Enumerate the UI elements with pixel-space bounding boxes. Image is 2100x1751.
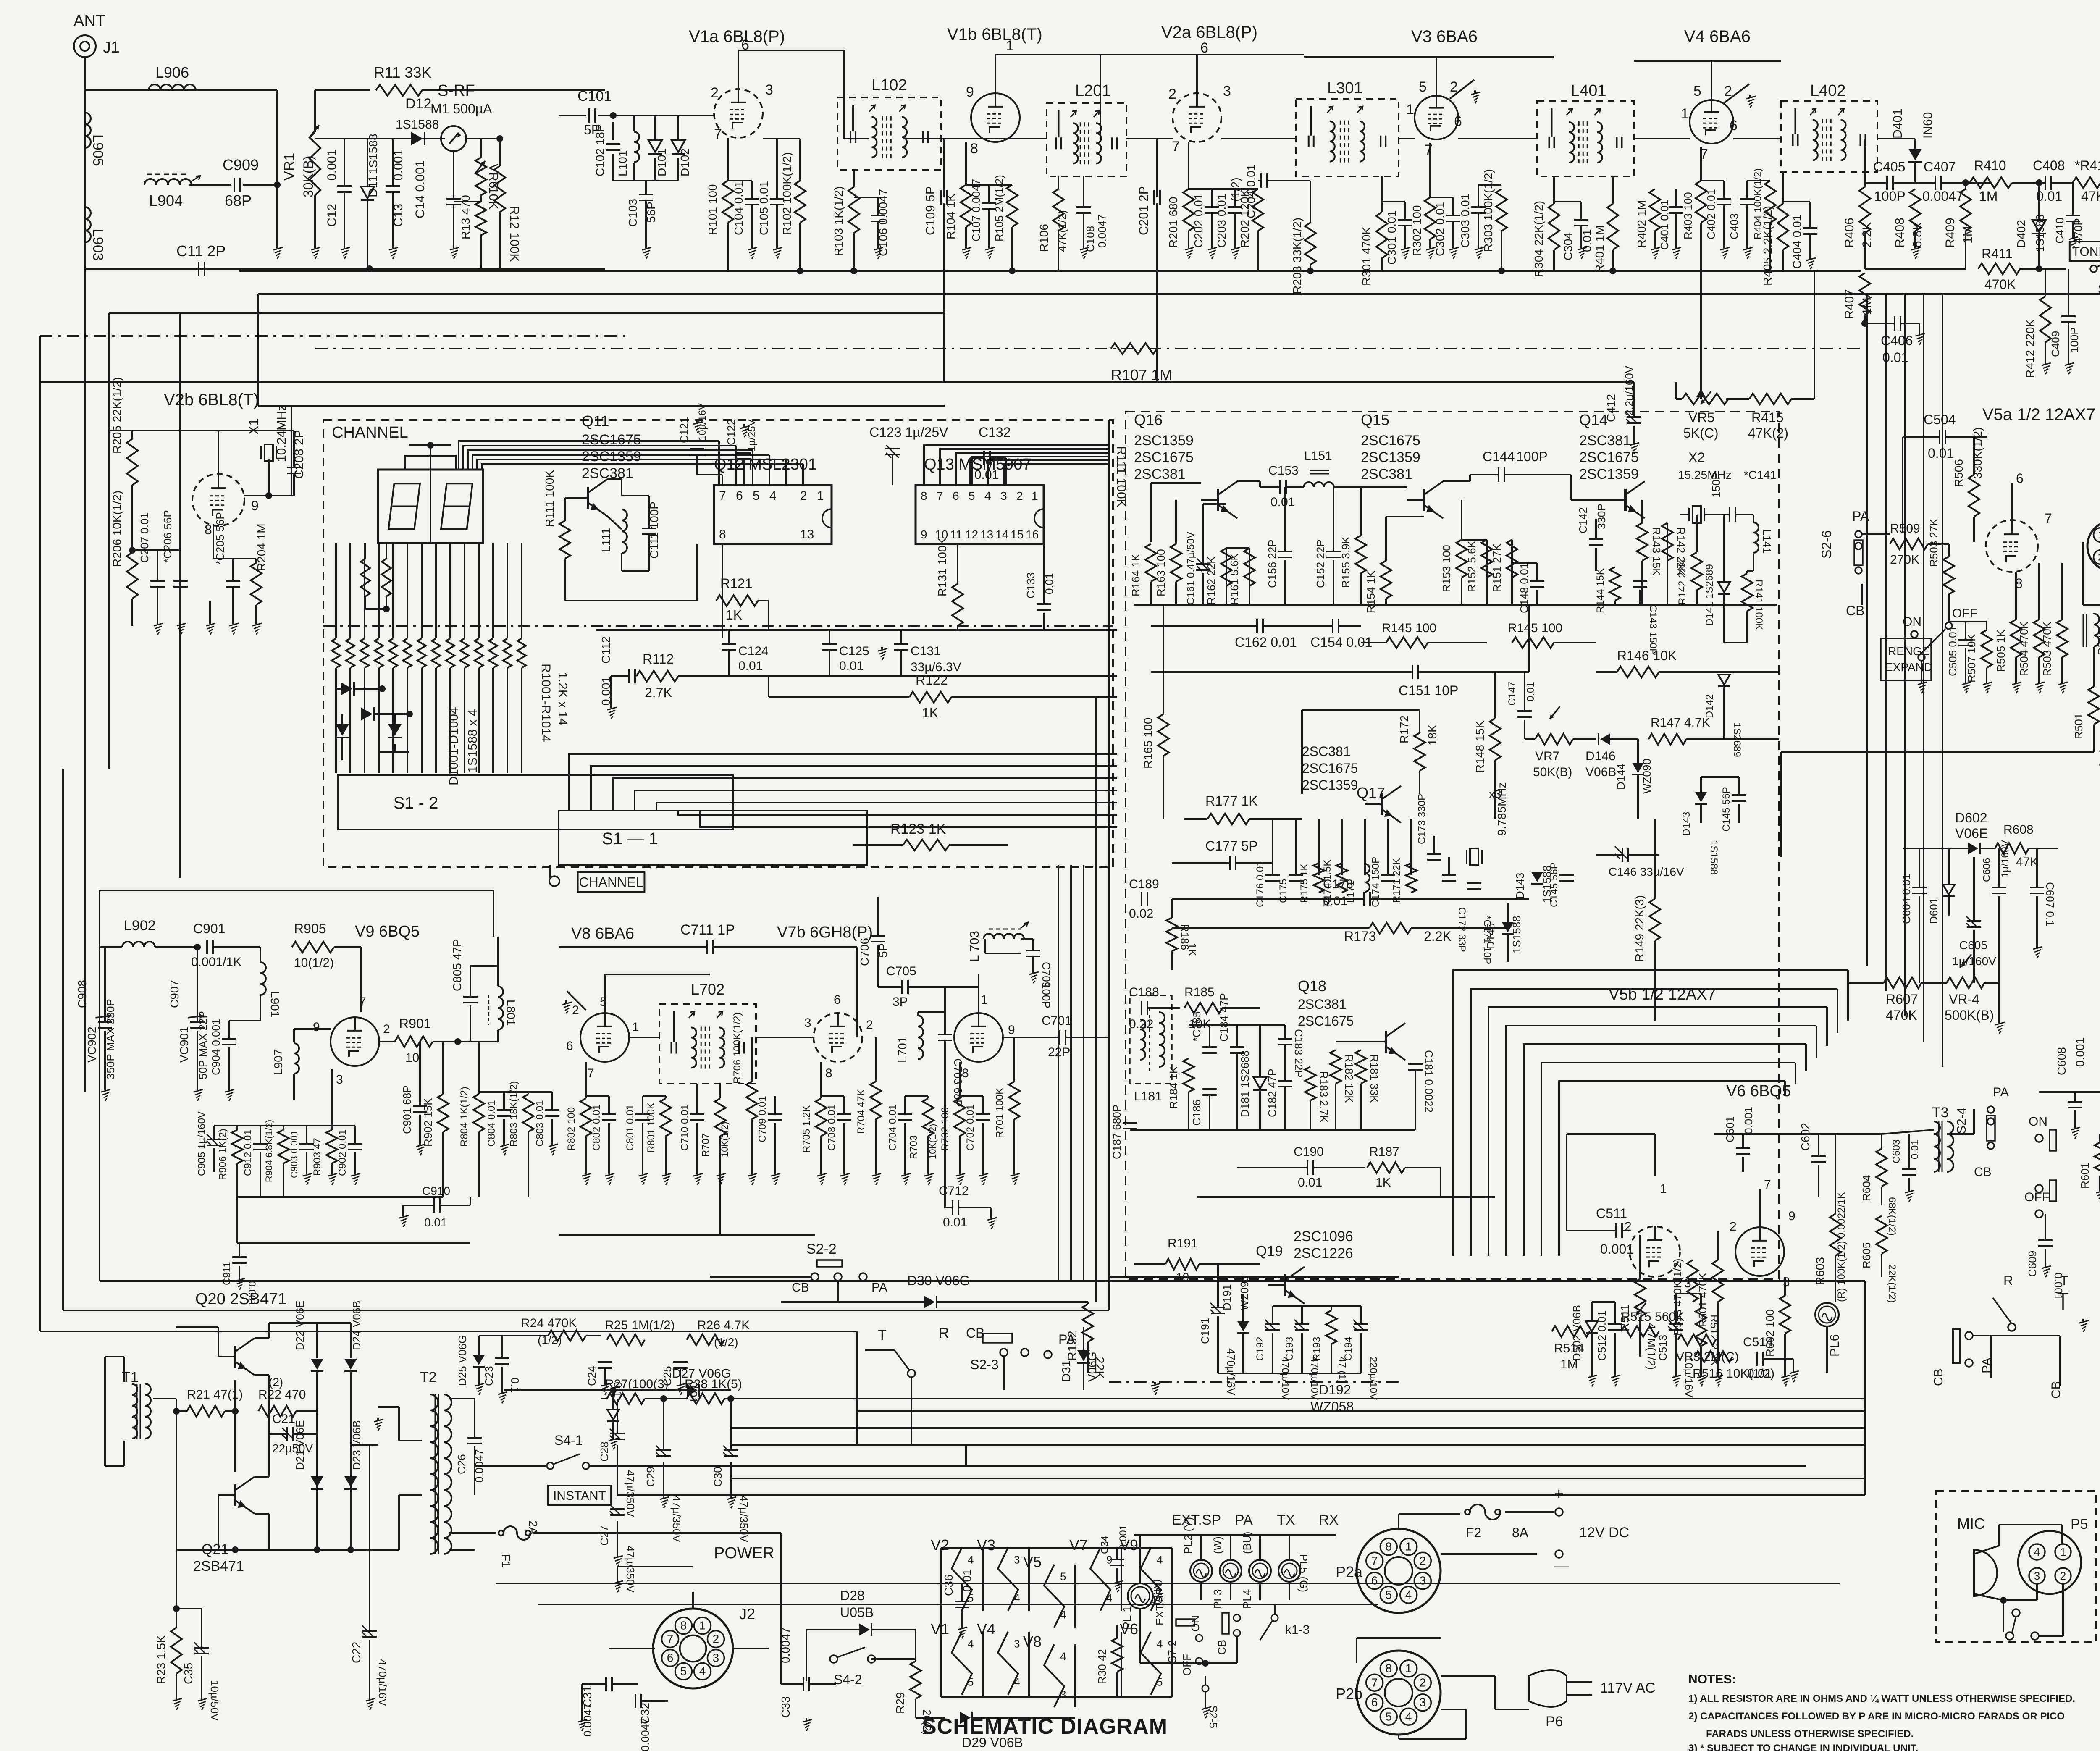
diode D143b 1S1588 xyxy=(1681,792,1719,875)
svg-text:R105 2M(1/2): R105 2M(1/2) xyxy=(993,175,1005,242)
svg-text:CB: CB xyxy=(966,1326,984,1341)
capacitor C607 0.1 xyxy=(2030,882,2056,927)
svg-text:5: 5 xyxy=(1419,79,1427,95)
wire xyxy=(394,744,396,752)
wire xyxy=(1336,1041,1369,1042)
wire xyxy=(1151,482,1201,484)
svg-text:R403 100: R403 100 xyxy=(1682,192,1694,239)
wire xyxy=(1172,862,1230,864)
wire xyxy=(2093,613,2095,614)
wire xyxy=(1676,1293,1701,1294)
wire xyxy=(1453,970,1848,1256)
capacitor C189 0.02 xyxy=(1129,877,1159,921)
capacitor C33 0.0047 xyxy=(779,1627,809,1718)
wire xyxy=(1592,1301,1615,1303)
switch S6 xyxy=(2090,260,2100,297)
diode D402 1S1588 xyxy=(2015,214,2046,252)
svg-text:V06B: V06B xyxy=(1585,765,1616,779)
wire xyxy=(1923,294,1924,1042)
wire xyxy=(916,1717,945,1719)
wire xyxy=(565,497,571,499)
ground xyxy=(206,622,215,635)
ground xyxy=(924,1172,934,1185)
wire xyxy=(1083,865,1084,1281)
wire xyxy=(316,1434,318,1550)
wire xyxy=(643,1095,666,1097)
wire xyxy=(1083,1327,1084,1350)
transformer T3 xyxy=(1932,1105,1953,1172)
wire xyxy=(1360,487,1362,536)
wire xyxy=(314,195,316,246)
capacitor C111 100P xyxy=(642,501,661,559)
wire xyxy=(799,223,801,271)
wire xyxy=(1654,941,1656,1021)
wire xyxy=(232,587,234,622)
svg-text:C124: C124 xyxy=(738,644,769,658)
wire xyxy=(941,1696,1172,1698)
wire xyxy=(917,1012,919,1016)
wire xyxy=(1134,604,1777,606)
wire xyxy=(1735,514,1753,515)
capacitor C104 0.01 xyxy=(732,181,759,235)
capacitor C152 22P xyxy=(1314,539,1341,588)
wire xyxy=(492,543,494,638)
wire xyxy=(1175,582,1177,605)
wire xyxy=(1524,720,1525,739)
wire xyxy=(1760,1133,1882,1135)
wire xyxy=(258,293,2100,295)
svg-text:C608: C608 xyxy=(2055,1047,2068,1075)
wire xyxy=(407,668,408,773)
wire xyxy=(1284,487,1286,551)
ground xyxy=(2033,945,2042,958)
svg-text:D143: D143 xyxy=(1681,812,1692,836)
svg-text:OFF: OFF xyxy=(1181,1654,1193,1676)
wire xyxy=(293,1074,295,1100)
diode D28 U05B xyxy=(840,1588,874,1636)
wire xyxy=(378,1406,399,1408)
wire xyxy=(677,158,679,181)
svg-text:0.001: 0.001 xyxy=(325,149,339,181)
wire xyxy=(719,1084,721,1098)
wire xyxy=(738,50,844,51)
resistor R413 47K xyxy=(2073,158,2100,204)
svg-text:8: 8 xyxy=(962,1066,969,1080)
svg-text:R412 220K: R412 220K xyxy=(2024,319,2037,378)
svg-text:ON: ON xyxy=(2029,1115,2047,1129)
wire xyxy=(39,1331,41,1332)
ground xyxy=(198,1697,207,1710)
wire xyxy=(1130,1129,1415,1131)
svg-text:R187: R187 xyxy=(1369,1145,1399,1159)
ground xyxy=(840,1172,850,1185)
wire xyxy=(104,947,106,1022)
wire xyxy=(157,550,158,581)
wire xyxy=(2059,1357,2061,1386)
wire xyxy=(1156,139,1158,197)
junction xyxy=(274,181,281,188)
svg-text:PL 1: PL 1 xyxy=(1121,1606,1134,1630)
svg-text:S1 — 1: S1 — 1 xyxy=(602,830,658,848)
ground xyxy=(374,1418,383,1431)
resistor R151 27K xyxy=(1491,540,1517,592)
potentiometer VR3 2M(C) xyxy=(1676,1334,1739,1364)
switch S7-2 EXT.SP xyxy=(1153,1588,1202,1676)
wire xyxy=(314,90,316,132)
wire xyxy=(780,1533,782,1567)
svg-text:100P: 100P xyxy=(1040,983,1053,1008)
wire xyxy=(559,115,586,116)
ground xyxy=(1983,680,1992,693)
wire xyxy=(1310,1100,1311,1130)
label Q15 xyxy=(1361,411,1420,482)
wire xyxy=(1612,176,1614,204)
wire xyxy=(1965,648,1966,680)
wire xyxy=(478,1367,480,1382)
wire xyxy=(697,474,722,475)
potentiometer VR6 10K xyxy=(475,158,500,209)
IF transformer L102 xyxy=(837,76,941,170)
wire xyxy=(641,1700,668,1702)
svg-text:0.01: 0.01 xyxy=(1323,894,1347,908)
svg-text:V8: V8 xyxy=(1023,1633,1042,1650)
svg-text:R804 1K(1/2): R804 1K(1/2) xyxy=(459,1087,470,1147)
wire xyxy=(1919,896,1920,983)
svg-text:(W): (W) xyxy=(1211,1536,1224,1554)
svg-text:R905: R905 xyxy=(294,921,326,936)
wire xyxy=(1410,819,1412,875)
wire xyxy=(611,675,629,677)
svg-text:C704 0.01: C704 0.01 xyxy=(887,1104,898,1151)
wire xyxy=(1948,544,1950,557)
svg-text:1: 1 xyxy=(1006,38,1014,54)
wire xyxy=(612,1390,614,1410)
svg-text:0.0047: 0.0047 xyxy=(639,1718,651,1751)
wire xyxy=(1284,1045,1286,1081)
wire xyxy=(105,1356,124,1357)
wire xyxy=(201,1656,202,1697)
resistor R403 100 xyxy=(1682,181,1706,239)
wire xyxy=(497,937,499,966)
IF transformer L702 xyxy=(659,981,756,1084)
svg-text:0.01: 0.01 xyxy=(974,468,999,482)
ground xyxy=(273,246,283,259)
svg-text:PA: PA xyxy=(1993,1085,2009,1099)
wire xyxy=(559,946,707,948)
wire xyxy=(1156,203,1158,382)
label R26 4.7K xyxy=(697,1318,750,1349)
svg-text:0.02: 0.02 xyxy=(1129,907,1153,921)
wire xyxy=(2039,268,2045,270)
wire xyxy=(837,1281,839,1302)
svg-text:D21 V06E: D21 V06E xyxy=(294,1420,306,1470)
wire xyxy=(982,1548,984,1611)
potentiometer VR7 50K(B) xyxy=(1533,706,1573,779)
svg-text:C911: C911 xyxy=(221,1262,233,1285)
wire xyxy=(63,1310,1109,1311)
svg-text:350P MAX 330P: 350P MAX 330P xyxy=(104,999,117,1079)
svg-text:C22: C22 xyxy=(350,1642,363,1663)
circle channel knob xyxy=(549,876,559,886)
wire xyxy=(478,1336,480,1355)
wire xyxy=(1554,642,1596,643)
svg-text:S-RF: S-RF xyxy=(438,82,475,100)
ground xyxy=(901,1172,911,1185)
junction xyxy=(2036,179,2042,186)
resistor R705 1.2K xyxy=(801,1098,827,1153)
svg-text:R149 22K(3): R149 22K(3) xyxy=(1633,895,1646,962)
capacitor C201 2P xyxy=(1137,186,1160,235)
svg-text:C21: C21 xyxy=(272,1412,295,1426)
wire xyxy=(785,459,787,485)
ground xyxy=(399,1214,409,1227)
capacitor C101 5P xyxy=(577,88,612,137)
wire xyxy=(1945,436,1987,438)
wire xyxy=(1226,548,1227,605)
wire xyxy=(470,1041,498,1042)
wire xyxy=(1364,819,1366,875)
wire xyxy=(877,897,879,936)
wire xyxy=(1461,500,1462,540)
svg-text:R906 1K(2): R906 1K(2) xyxy=(217,1129,228,1180)
svg-text:R12 100K: R12 100K xyxy=(507,206,521,262)
wire xyxy=(1341,819,1343,875)
wire xyxy=(419,1042,421,1106)
resistor R605 22K(1/2) xyxy=(1860,1216,1898,1303)
wire xyxy=(237,1196,443,1198)
diode D1002 xyxy=(361,707,374,721)
notes text xyxy=(1688,1672,2075,1751)
tube V9 6BQ5 xyxy=(331,1017,379,1066)
svg-text:R802 100: R802 100 xyxy=(566,1107,577,1151)
lamp PL3 (W) xyxy=(1211,1536,1242,1609)
svg-text:D30 V06G: D30 V06G xyxy=(907,1273,970,1288)
transistor Q16 xyxy=(1201,481,1237,518)
wire xyxy=(1188,1058,1189,1059)
resistor R26 xyxy=(687,1334,724,1345)
svg-text:R206 10K(1/2): R206 10K(1/2) xyxy=(110,491,123,567)
svg-text:D601: D601 xyxy=(1927,898,1940,924)
wire xyxy=(2036,896,2038,945)
wire xyxy=(1763,1358,1793,1360)
ground xyxy=(1208,246,1217,259)
wire xyxy=(1301,710,1303,794)
svg-text:R111 100K: R111 100K xyxy=(543,470,556,527)
inductor L111 xyxy=(599,509,627,553)
svg-text:R102 100K(1/2): R102 100K(1/2) xyxy=(780,152,793,235)
svg-text:4: 4 xyxy=(968,1554,974,1566)
wire xyxy=(316,1372,318,1434)
wire xyxy=(1676,398,1682,400)
ground xyxy=(2069,235,2078,248)
junction xyxy=(173,1408,180,1415)
junction xyxy=(660,1395,667,1402)
wire xyxy=(1163,756,1164,819)
wire xyxy=(354,1152,356,1172)
svg-text:0.001: 0.001 xyxy=(2074,1037,2087,1067)
resistor R12 100K xyxy=(494,166,521,262)
wire xyxy=(1501,231,1502,271)
svg-text:4: 4 xyxy=(1060,1609,1066,1621)
svg-text:2: 2 xyxy=(713,1632,719,1645)
svg-text:R: R xyxy=(2003,1273,2013,1288)
capacitor C13 0.001 xyxy=(386,149,405,227)
wire xyxy=(239,1266,240,1277)
diode D145 1S1588 xyxy=(1484,916,1523,953)
resistor R804 1K(1/2) xyxy=(459,1087,484,1147)
resistor R146 10K xyxy=(1617,648,1677,677)
svg-text:2: 2 xyxy=(572,1003,579,1017)
svg-text:1: 1 xyxy=(1406,102,1414,118)
wire xyxy=(1171,1548,1173,1697)
svg-text:CHANNEL: CHANNEL xyxy=(332,424,408,441)
svg-text:D191: D191 xyxy=(1221,1284,1233,1310)
wire xyxy=(768,676,769,697)
wire xyxy=(392,192,394,246)
capacitor C513 10u/16V xyxy=(1656,1320,1695,1398)
resistor R103 1K(1/2) xyxy=(832,186,859,256)
wire xyxy=(255,1337,269,1339)
ground xyxy=(956,1172,965,1185)
wire xyxy=(2036,848,2038,887)
ground xyxy=(614,1554,623,1567)
wire xyxy=(449,668,451,773)
wire xyxy=(1633,426,1635,441)
capacitor C701 22P xyxy=(1042,1014,1072,1059)
wire xyxy=(1430,197,1453,198)
wire xyxy=(1205,1676,1206,1685)
wire xyxy=(1780,752,1782,857)
wire xyxy=(957,544,958,584)
resistor R902 15K xyxy=(422,1094,449,1147)
svg-text:EXT.SP: EXT.SP xyxy=(1172,1512,1221,1528)
wire xyxy=(1151,671,1412,673)
svg-text:0.01: 0.01 xyxy=(424,1216,447,1229)
resistor R516 10K(1/2) xyxy=(1693,1351,1774,1381)
svg-text:470µ/16V: 470µ/16V xyxy=(376,1659,389,1706)
wire xyxy=(365,543,366,559)
svg-text:2SC1096: 2SC1096 xyxy=(1294,1229,1353,1244)
wire xyxy=(176,1550,177,1628)
wire xyxy=(335,543,337,638)
svg-text:2SC1675: 2SC1675 xyxy=(1134,449,1194,465)
diode D102 xyxy=(672,140,691,176)
socket P2b xyxy=(1336,1651,1441,1735)
wire xyxy=(1360,1333,1362,1373)
wire xyxy=(1641,500,1643,523)
svg-text:4: 4 xyxy=(1106,1592,1112,1604)
diode D142 1S2689 xyxy=(1704,675,1743,757)
capacitor C905 1u/160V xyxy=(196,1111,221,1176)
wire xyxy=(1083,1363,1084,1390)
svg-text:C182 47P: C182 47P xyxy=(1266,1068,1278,1117)
wire xyxy=(1965,183,1966,189)
wire xyxy=(621,553,622,571)
switch spk ON xyxy=(2029,1115,2056,1151)
wire xyxy=(1234,213,1236,246)
wire xyxy=(421,668,423,773)
junction xyxy=(1962,179,1969,186)
svg-text:C125: C125 xyxy=(839,644,869,658)
svg-text:V6 6BQ5: V6 6BQ5 xyxy=(1726,1082,1791,1100)
svg-text:0.01: 0.01 xyxy=(738,659,763,673)
wire xyxy=(1595,548,1597,571)
resistor R155 3.9K xyxy=(1339,536,1366,588)
svg-text:1: 1 xyxy=(1405,1662,1412,1675)
svg-text:C905 1µ/160V: C905 1µ/160V xyxy=(196,1111,207,1176)
pin labels V5a xyxy=(2015,471,2052,591)
ground xyxy=(2079,1319,2089,1332)
junction xyxy=(129,547,136,554)
tube V7a 6GH8 xyxy=(954,1013,1003,1062)
wire xyxy=(402,1205,404,1214)
ground xyxy=(229,622,239,635)
svg-text:R193: R193 xyxy=(1311,1337,1323,1361)
svg-text:R608: R608 xyxy=(2003,823,2034,837)
svg-text:R173: R173 xyxy=(1344,929,1376,944)
resistor R172 18K xyxy=(1398,715,1439,771)
svg-text:13: 13 xyxy=(800,528,814,541)
svg-text:C161 0.47µ/50V: C161 0.47µ/50V xyxy=(1185,532,1197,605)
wire xyxy=(1028,1548,1030,1611)
wire xyxy=(613,180,678,181)
svg-text:D181 1S2688: D181 1S2688 xyxy=(1239,1050,1251,1117)
wire xyxy=(1866,294,1868,966)
svg-text:C504: C504 xyxy=(1924,412,1956,427)
svg-text:C153: C153 xyxy=(1268,464,1299,478)
wire xyxy=(642,1096,643,1114)
wire xyxy=(604,1368,606,1382)
svg-text:—: — xyxy=(1554,1557,1569,1574)
svg-text:C177 5P: C177 5P xyxy=(1205,838,1258,853)
svg-text:D401: D401 xyxy=(1891,108,1905,139)
wire xyxy=(449,1549,475,1551)
wire xyxy=(806,1630,807,1681)
wire xyxy=(1654,231,1656,246)
svg-text:ANT: ANT xyxy=(73,12,105,30)
svg-text:V1b 6BL8(T): V1b 6BL8(T) xyxy=(947,25,1042,44)
wire xyxy=(1675,213,1677,246)
transistor Q20 xyxy=(218,1338,255,1375)
svg-text:0.001/1K: 0.001/1K xyxy=(191,955,241,969)
wire xyxy=(315,348,1865,349)
svg-text:C101: C101 xyxy=(577,88,612,104)
svg-text:C511: C511 xyxy=(1596,1206,1627,1221)
wire xyxy=(1318,819,1320,875)
svg-text:C29: C29 xyxy=(644,1467,657,1487)
svg-text:470µ/10V: 470µ/10V xyxy=(1309,1357,1320,1400)
wire xyxy=(774,1096,776,1114)
wire xyxy=(1218,1373,1361,1374)
svg-text:5: 5 xyxy=(600,995,607,1009)
svg-text:3: 3 xyxy=(765,82,773,98)
wire xyxy=(1986,622,1987,630)
wire xyxy=(349,668,351,773)
crystal x3 9.785MHz xyxy=(1467,782,1508,865)
wire xyxy=(268,459,270,496)
ground xyxy=(2065,361,2074,374)
wire xyxy=(648,496,650,528)
svg-text:1) ALL RESISTOR ARE IN OHMS AN: 1) ALL RESISTOR ARE IN OHMS AND ¼ WATT U… xyxy=(1688,1693,2075,1704)
svg-text:L903: L903 xyxy=(90,229,106,261)
wire xyxy=(1452,221,1454,246)
wire xyxy=(2045,1249,2046,1264)
wire xyxy=(421,543,423,638)
wire xyxy=(1259,481,1261,487)
wire xyxy=(255,1513,269,1515)
wire xyxy=(2074,1092,2076,1102)
ground xyxy=(1475,246,1484,259)
